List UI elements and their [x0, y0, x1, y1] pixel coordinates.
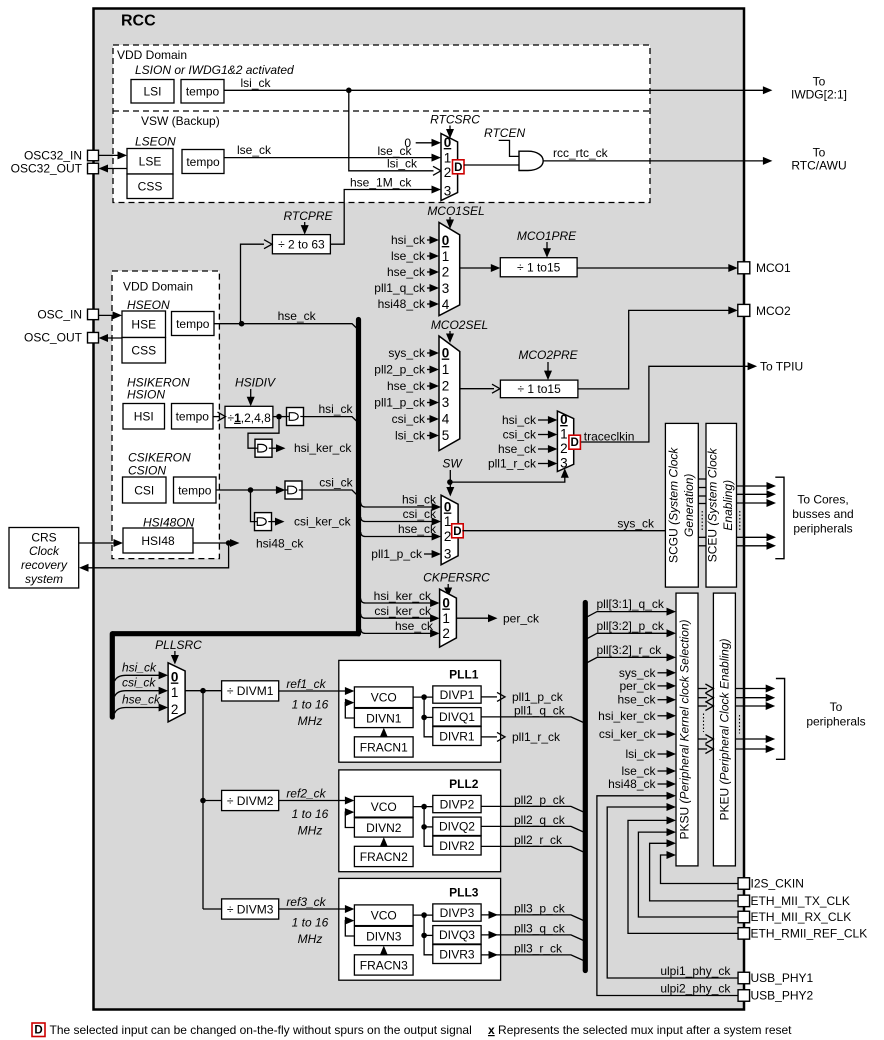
svg-text:PLL3: PLL3: [449, 885, 479, 899]
svg-text:hse_ck: hse_ck: [617, 693, 656, 707]
svg-text:1: 1: [442, 362, 450, 377]
svg-text:VCO: VCO: [371, 800, 397, 814]
wire pll3_p_ck to bus: [481, 915, 583, 921]
svg-text:ulpi2_phy_ck: ulpi2_phy_ck: [660, 982, 731, 996]
divider DIVM1: [222, 681, 279, 701]
svg-text:pll2_r_ck: pll2_r_ck: [514, 833, 563, 847]
wire csi_ker_ck stub: [271, 521, 279, 523]
LSI tempo block: [181, 80, 224, 104]
svg-text:pll1_p_ck: pll1_p_ck: [512, 690, 564, 704]
wires PKEU outputs to peripherals: [735, 688, 770, 690]
PLL3 VCO out to dividers: [413, 914, 433, 916]
svg-text:PLL1: PLL1: [449, 667, 479, 681]
svg-text:RTC/AWU: RTC/AWU: [791, 159, 846, 173]
CKPERSRC select arrow: [447, 584, 449, 590]
stub hsi_ck into MCO1SEL: [427, 239, 435, 241]
svg-text:OSC_OUT: OSC_OUT: [24, 331, 83, 345]
svg-text:D: D: [570, 437, 578, 449]
svg-text:0: 0: [442, 346, 450, 361]
svg-text:1 to 16: 1 to 16: [292, 807, 329, 821]
svg-text:hsi_ker_ck: hsi_ker_ck: [374, 589, 432, 603]
svg-text:To: To: [813, 75, 826, 89]
divider HSIDIV 1,2,4,8: [225, 406, 273, 427]
HSE tempo block: [172, 312, 215, 336]
svg-text:USB_PHY2: USB_PHY2: [751, 989, 814, 1003]
svg-text:1: 1: [442, 611, 450, 626]
svg-text:csi_ck: csi_ck: [403, 507, 437, 521]
svg-text:Generation): Generation): [682, 474, 696, 537]
wire RTCSRC mux to AND gate: [464, 164, 519, 166]
wire hsi_ck to SW mux 0: [361, 503, 437, 508]
PLL3 input wire to VCO: [339, 908, 350, 910]
svg-text:LSE: LSE: [139, 155, 162, 169]
wire pll[3:1]_q_ck from bus to PKSU: [587, 612, 672, 618]
svg-text:1: 1: [171, 685, 179, 700]
PLL2 DIVQ2: [433, 817, 481, 835]
stub sys_ck into PKSU: [658, 672, 672, 674]
svg-text:PKSU (Peripheral Kernel clock: PKSU (Peripheral Kernel clock Selection): [677, 619, 691, 839]
svg-text:4: 4: [442, 297, 450, 312]
svg-text:Clock: Clock: [29, 544, 60, 558]
svg-text:lse_ck: lse_ck: [237, 143, 272, 157]
wire PLLSRC out: [185, 690, 222, 692]
node hse_ck junction: [239, 321, 245, 327]
wire pll[3:2]_p_ck from bus to PKSU: [587, 633, 672, 639]
PLL2 input wire to VCO: [339, 800, 350, 802]
svg-text:FRACN2: FRACN2: [360, 850, 408, 864]
svg-text:To TPIU: To TPIU: [760, 359, 803, 373]
wire into DIVM3: [203, 908, 222, 910]
svg-text:DIVP3: DIVP3: [440, 906, 475, 920]
svg-text:ETH_RMII_REF_CLK: ETH_RMII_REF_CLK: [751, 926, 868, 940]
svg-text:hsi_ck: hsi_ck: [122, 660, 157, 674]
svg-text:recovery: recovery: [21, 558, 68, 572]
clock gate hsi_ck: [287, 408, 304, 426]
wire CSI tempo to csi gate: [216, 489, 281, 491]
svg-text:CSS: CSS: [131, 344, 156, 358]
svg-text:tempo: tempo: [186, 85, 220, 99]
svg-text:5: 5: [442, 428, 450, 443]
oscillator LSI: [131, 80, 174, 104]
svg-text:3: 3: [444, 184, 452, 199]
wire ETH_MII_RX_CLK to PKSU: [638, 832, 738, 917]
PLL2 VCO out to dividers: [413, 806, 433, 808]
svg-text:MHz: MHz: [298, 714, 323, 728]
PLL1 VCO out to dividers: [413, 696, 433, 698]
wire into DIVM2: [203, 800, 222, 802]
wire hse_1M_ck from RTCPRE divider to mux input 3: [330, 190, 437, 245]
PLL3 FRACN3: [354, 955, 413, 975]
PLL2 block: [339, 770, 501, 872]
mux RTCSRC: [441, 134, 458, 201]
svg-text:MCO1SEL: MCO1SEL: [427, 204, 484, 218]
svg-text:csi_ck: csi_ck: [122, 676, 156, 690]
svg-text:PKEU (Peripheral Clock Enablin: PKEU (Peripheral Clock Enabling): [718, 638, 732, 820]
SCGU block: [665, 423, 698, 587]
svg-text:÷ 1 to15: ÷ 1 to15: [517, 261, 561, 275]
svg-text:0: 0: [444, 500, 452, 515]
PLL2 VCO: [354, 796, 413, 817]
svg-text:pll1_r_ck: pll1_r_ck: [512, 730, 561, 744]
svg-text:SW: SW: [442, 457, 463, 471]
stub hse_ck into traceclkin mux: [538, 448, 553, 450]
oscillator LSE: [127, 149, 173, 175]
wire pll2_p_ck to bus: [481, 806, 583, 812]
PLL3 DIVP3: [433, 904, 481, 921]
wire pll[3:2]_r_ck from bus to PKSU: [587, 657, 672, 663]
svg-text:OSC32_OUT: OSC32_OUT: [11, 162, 83, 176]
svg-text:OSC32_IN: OSC32_IN: [24, 149, 82, 163]
wire HSI tempo to HSIDIV: [213, 416, 219, 418]
svg-text:pll1_q_ck: pll1_q_ck: [374, 281, 426, 295]
svg-text:lse_ck: lse_ck: [391, 249, 426, 263]
stub csi_ck into traceclkin mux: [538, 434, 553, 436]
wire ref3_ck to PLL3: [279, 908, 339, 910]
svg-text:USB_PHY1: USB_PHY1: [751, 971, 814, 985]
svg-text:MHz: MHz: [298, 824, 323, 838]
PLL1 FRACN arrow into DIVN: [383, 732, 385, 736]
divider DIVM3: [222, 899, 279, 919]
svg-text:DIVP2: DIVP2: [440, 797, 475, 811]
svg-text:hsi_ker_ck: hsi_ker_ck: [294, 441, 352, 455]
wire lsi_ck to IWDG: [224, 89, 768, 91]
wire csi_ck to PLLSRC 1: [115, 691, 164, 697]
bracket To peripherals: [776, 679, 785, 760]
svg-text:I2S_CKIN: I2S_CKIN: [751, 877, 804, 891]
node lsi_ck junction: [346, 88, 352, 94]
stub hsi48_ck into MCO1SEL: [427, 303, 435, 305]
svg-text:DIVQ1: DIVQ1: [439, 710, 475, 724]
PKEU block: [713, 593, 735, 866]
svg-text:LSI: LSI: [143, 85, 161, 99]
svg-text:4: 4: [442, 412, 450, 427]
svg-text:DIVR3: DIVR3: [439, 947, 475, 961]
mux PLLSRC: [168, 663, 185, 722]
svg-text:lsi_ck: lsi_ck: [395, 429, 426, 443]
wire csi_ck to SW mux 1: [361, 517, 437, 522]
svg-text:pll[3:1]_q_ck: pll[3:1]_q_ck: [597, 597, 665, 611]
svg-text:DIVN3: DIVN3: [366, 929, 402, 943]
svg-text:tempo: tempo: [178, 483, 212, 497]
svg-text:VDD Domain: VDD Domain: [117, 48, 187, 62]
wire hse_ck to PLLSRC 2: [115, 708, 164, 714]
RTCSRC select arrow: [449, 126, 451, 132]
pin USB_PHY2: [738, 990, 750, 1002]
svg-text:pll1_p_ck: pll1_p_ck: [374, 396, 426, 410]
svg-text:To: To: [813, 145, 826, 159]
HSE CSS block: [122, 338, 166, 364]
svg-text:tempo: tempo: [186, 155, 220, 169]
svg-text:tempo: tempo: [176, 317, 210, 331]
svg-text:÷ DIVM1: ÷ DIVM1: [227, 684, 274, 698]
svg-text:pll[3:2]_r_ck: pll[3:2]_r_ck: [597, 643, 663, 657]
svg-text:VCO: VCO: [371, 691, 397, 705]
svg-text:busses and: busses and: [792, 507, 853, 521]
PLL1 DIVN1: [354, 708, 413, 727]
svg-text:2: 2: [444, 529, 452, 544]
svg-text:csi_ker_ck: csi_ker_ck: [599, 727, 657, 741]
stub lsi_ck into MCO2SEL: [427, 435, 435, 437]
svg-text:MCO2: MCO2: [756, 304, 791, 318]
VDD Domain dashed box (oscillators): [112, 271, 219, 559]
svg-text:ETH_MII_TX_CLK: ETH_MII_TX_CLK: [751, 894, 850, 908]
PLL3 VCO: [354, 905, 413, 926]
svg-text:DIVN1: DIVN1: [366, 711, 402, 725]
wire USB_PHY2 to PKSU: [597, 796, 739, 996]
wire pll3_q_ck to bus: [481, 935, 583, 941]
PLL3 DIVQ3: [433, 926, 481, 944]
pin OSC32_OUT: [88, 163, 99, 174]
svg-text:0: 0: [560, 412, 568, 427]
divider DIVM2: [222, 790, 279, 810]
svg-text:MHz: MHz: [298, 932, 323, 946]
wire traceclkin to TPIU: [581, 366, 753, 442]
wire hse_ck to CKPERSRC 2: [361, 629, 436, 634]
oscillator HSI48: [123, 528, 193, 553]
wire HSI48 back to CRS: [84, 543, 229, 568]
clock gate csi_ck: [285, 481, 302, 499]
svg-text:DIVR1: DIVR1: [439, 729, 475, 743]
svg-text:lsi_ck: lsi_ck: [625, 747, 656, 761]
stub lse_ck into MCO1SEL: [427, 255, 435, 257]
wire MCO1SEL to MCO1PRE: [460, 267, 497, 269]
PLL3 DIVN3: [354, 926, 413, 945]
svg-text:csi_ck: csi_ck: [503, 428, 537, 442]
wire pll2_q_ck to bus: [481, 826, 583, 832]
PLL2 DIVR2: [433, 836, 481, 855]
svg-text:DIVQ2: DIVQ2: [439, 820, 475, 834]
legend D marker: [32, 1023, 45, 1037]
stub pll1_r_ck into traceclkin mux: [538, 463, 553, 465]
pin ETH_MII_RX_CLK: [738, 911, 750, 923]
wire hse_ck to bus: [214, 324, 358, 329]
svg-text:VSW (Backup): VSW (Backup): [141, 114, 220, 128]
svg-text:csi_ck: csi_ck: [392, 412, 426, 426]
svg-text:hsi_ck: hsi_ck: [402, 492, 437, 506]
svg-text:1: 1: [444, 151, 452, 166]
svg-text:pll1_r_ck: pll1_r_ck: [488, 457, 537, 471]
svg-text:PLLSRC: PLLSRC: [155, 638, 202, 652]
wire csi_ker_ck to CKPERSRC 1: [361, 614, 436, 619]
pin ETH_RMII_REF_CLK: [738, 928, 750, 940]
svg-text:hse_ck: hse_ck: [387, 265, 426, 279]
PLL2 DIVP2: [433, 795, 481, 812]
svg-text:3: 3: [442, 395, 450, 410]
wire HSE to OSC_OUT: [103, 337, 123, 339]
svg-text:HSI48: HSI48: [141, 534, 175, 548]
svg-text:MCO2SEL: MCO2SEL: [431, 318, 488, 332]
oscillator CSI: [123, 477, 167, 503]
svg-text:tempo: tempo: [176, 410, 210, 424]
stub 0 into RTCSRC mux input 0: [416, 142, 437, 144]
svg-text:CSI: CSI: [134, 483, 154, 497]
MCO2PRE select arrow: [547, 362, 549, 374]
svg-text:LSEON: LSEON: [135, 135, 176, 149]
clock gate csi_ker_ck: [255, 513, 272, 531]
svg-text:hsi48_ck: hsi48_ck: [256, 536, 304, 550]
wire RTCEN to gate: [499, 140, 519, 156]
wire hsi_ker_ck stub: [272, 447, 280, 449]
dotted continuation marks SCGU/SCEU: [701, 511, 703, 531]
svg-text:pll1_q_ck: pll1_q_ck: [514, 703, 566, 717]
wire ref2_ck to PLL2: [279, 800, 339, 802]
PLL3 feedback DIVN to VCO: [345, 921, 354, 936]
pll output bundle bus (right): [583, 603, 588, 971]
svg-text:2: 2: [444, 165, 452, 180]
wires SCGU to SCEU: [698, 478, 706, 480]
wire CRS to HSI48: [79, 542, 119, 544]
svg-text:peripherals: peripherals: [793, 521, 852, 535]
svg-text:3: 3: [444, 547, 452, 562]
svg-text:2: 2: [560, 441, 568, 456]
svg-text:VDD Domain: VDD Domain: [123, 280, 193, 294]
svg-text:hsi48_ck: hsi48_ck: [378, 297, 426, 311]
pin USB_PHY1: [738, 972, 750, 984]
wire LSE to OSC32_OUT: [103, 168, 128, 170]
RTCPRE select arrow: [304, 222, 306, 228]
svg-text:DIVP1: DIVP1: [440, 688, 475, 702]
SW select arrow: [449, 470, 451, 489]
MCO1PRE select arrow: [546, 242, 548, 251]
PLL2 FRACN arrow into DIVN: [383, 842, 385, 846]
svg-text:÷ 2 to 63: ÷ 2 to 63: [278, 238, 325, 252]
svg-text:peripherals: peripherals: [806, 715, 865, 729]
svg-text:per_ck: per_ck: [619, 679, 656, 693]
pin OSC_OUT: [88, 332, 99, 343]
svg-text:SCGU (System Clock: SCGU (System Clock: [666, 447, 680, 563]
PLL3 DIVR3: [433, 945, 481, 964]
D marker on RTCSRC mux: [453, 160, 465, 174]
svg-text:OSC_IN: OSC_IN: [37, 307, 82, 321]
pin OSC32_IN: [88, 150, 99, 161]
wire per_ck stub: [456, 617, 492, 619]
svg-text:Enabling): Enabling): [721, 480, 735, 531]
wire hsi_ck to PLLSRC 0: [115, 675, 164, 681]
svg-text:÷1,2,4,8: ÷1,2,4,8: [228, 411, 272, 425]
stub hsi_ker_ck into PKSU: [658, 715, 672, 717]
CSI tempo block: [174, 477, 217, 503]
svg-text:pll2_p_ck: pll2_p_ck: [374, 363, 426, 377]
svg-text:HSIDIV: HSIDIV: [235, 376, 276, 390]
svg-text:2: 2: [171, 702, 179, 717]
wire pll1_q_ck to bus: [481, 717, 583, 723]
svg-text:D: D: [454, 162, 462, 174]
wire to csi_ker gate: [251, 490, 255, 522]
svg-text:FRACN3: FRACN3: [360, 958, 408, 972]
mux CKPERSRC: [440, 589, 457, 647]
svg-text:sys_ck: sys_ck: [388, 346, 426, 360]
svg-text:HSION: HSION: [127, 388, 165, 402]
svg-text:hse_1M_ck: hse_1M_ck: [350, 175, 412, 189]
pin OSC_IN: [88, 309, 99, 320]
svg-text:pll3_r_ck: pll3_r_ck: [514, 941, 563, 955]
stub pll1_q_ck into MCO1SEL: [427, 287, 435, 289]
wire SW to traceclkin mux select: [450, 474, 565, 482]
stub pll1_p_ck to SW mux 3: [424, 553, 437, 555]
svg-text:ETH_MII_RX_CLK: ETH_MII_RX_CLK: [751, 910, 852, 924]
PLL1 DIVR1: [433, 727, 481, 746]
svg-text:0: 0: [442, 596, 450, 611]
svg-text:÷ DIVM3: ÷ DIVM3: [227, 902, 274, 916]
wire OSC_IN to HSE: [99, 314, 119, 316]
svg-text:ref1_ck: ref1_ck: [286, 677, 326, 691]
pin MCO2: [738, 304, 750, 316]
svg-text:x Represents the selected mux: x Represents the selected mux input afte…: [488, 1023, 792, 1037]
wire HSIDIV to hsi_ck gate: [273, 416, 287, 418]
svg-text:÷ DIVM2: ÷ DIVM2: [227, 794, 274, 808]
wire hsi_ck to bus: [304, 417, 358, 422]
wire ref1_ck to PLL1: [279, 690, 339, 692]
wire pll2_r_ck to bus: [481, 846, 583, 852]
stub csi_ck into MCO2SEL: [427, 418, 435, 420]
wire csi_ck to bus: [302, 490, 358, 496]
HSIDIV select arrow: [250, 389, 252, 400]
PLL1 input wire to VCO: [339, 690, 350, 692]
LSE tempo block: [182, 150, 224, 174]
oscillator HSI: [123, 404, 165, 430]
svg-text:ref3_ck: ref3_ck: [286, 895, 326, 909]
svg-text:pll1_p_ck: pll1_p_ck: [371, 547, 423, 561]
wire PLLSRC down to DIVM2 DIVM3: [202, 691, 204, 909]
svg-text:csi_ker_ck: csi_ker_ck: [294, 514, 352, 528]
svg-text:3: 3: [442, 281, 450, 296]
clock gate hsi_ker_ck: [255, 439, 272, 457]
svg-text:The selected input can be chan: The selected input can be changed on-the…: [50, 1023, 472, 1037]
wire pll1_p_ck stub: [481, 696, 497, 698]
PLL1 FRACN1: [354, 737, 413, 757]
svg-text:per_ck: per_ck: [503, 611, 540, 625]
svg-text:lsi_ck: lsi_ck: [387, 156, 418, 170]
PLL1 DIVP1: [433, 686, 481, 703]
wire MCO2PRE to MCO2 pin: [578, 310, 733, 389]
svg-text:HSE: HSE: [131, 318, 156, 332]
svg-text:DIVR2: DIVR2: [439, 839, 475, 853]
pin I2S_CKIN: [738, 878, 750, 890]
svg-text:CRS: CRS: [31, 531, 56, 545]
stub pll2_p_ck into MCO2SEL: [427, 369, 435, 371]
svg-text:hse_ck: hse_ck: [498, 442, 537, 456]
svg-text:To Cores,: To Cores,: [797, 493, 848, 507]
HSI tempo block: [172, 404, 214, 430]
stub sys_ck into MCO2SEL: [427, 352, 435, 354]
node hsi junction: [276, 414, 282, 420]
svg-text:hsi_ker_ck: hsi_ker_ck: [598, 709, 656, 723]
svg-text:hsi_ck: hsi_ck: [502, 413, 537, 427]
svg-text:system: system: [25, 572, 63, 586]
stub lsi_ck into PKSU: [658, 753, 672, 755]
PLL3 FRACN arrow into DIVN: [383, 950, 385, 954]
dotted continuation marks PKSU/PKEU: [703, 714, 705, 733]
svg-text:To: To: [830, 700, 843, 714]
svg-text:0: 0: [171, 670, 179, 685]
pin MCO1: [738, 262, 750, 274]
svg-text:rcc_rtc_ck: rcc_rtc_ck: [553, 146, 609, 160]
svg-text:sys_ck: sys_ck: [617, 517, 655, 531]
stub hsi48_ck into PKSU: [658, 783, 672, 785]
wire lsi_ck branch to RTCSRC mux input 2: [349, 90, 434, 171]
svg-text:1: 1: [444, 514, 452, 529]
node SW junction: [447, 479, 453, 485]
svg-text:hse_ck: hse_ck: [398, 522, 437, 536]
svg-text:ref2_ck: ref2_ck: [286, 787, 326, 801]
D marker on SW mux: [452, 524, 464, 538]
svg-text:csi_ck: csi_ck: [319, 476, 353, 490]
svg-text:PLL2: PLL2: [449, 777, 479, 791]
svg-text:LSION or IWDG1&2 activated: LSION or IWDG1&2 activated: [135, 63, 294, 77]
svg-text:hse_ck: hse_ck: [278, 309, 317, 323]
wire sys_ck to SCGU: [462, 530, 665, 532]
bracket To Cores: [775, 477, 784, 559]
